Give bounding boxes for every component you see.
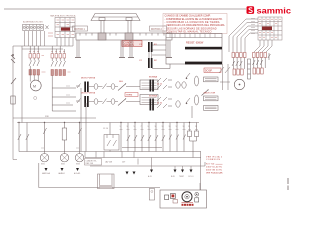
contactor KM1 terminal row — [29, 54, 40, 59]
red control label on table — [122, 41, 142, 48]
row 2R: pump circuit B — [149, 95, 180, 111]
thermal relay F1 row — [29, 70, 40, 76]
connector bars X5 (pair, upper) — [139, 42, 157, 52]
svg-text:KM1: KM1 — [41, 164, 45, 166]
connector grid J2 (control board, under logo) — [258, 17, 282, 40]
resistor row RA1 (right cluster 1) — [232, 53, 246, 58]
svg-text:17: 17 — [176, 126, 178, 128]
KM2 aux red label — [68, 71, 71, 73]
svg-text:1: 1 — [120, 126, 121, 128]
ladder branch B2 — [26, 123, 29, 152]
svg-text:TEMP: TEMP — [179, 176, 185, 178]
svg-text:209: 209 — [122, 162, 125, 164]
relay coil KM1 — [40, 123, 48, 166]
fuse block between clusters — [248, 59, 251, 79]
contacts under RB1 — [253, 58, 266, 69]
wire: distribution bus y49 — [22, 48, 63, 50]
svg-text:sammic: sammic — [257, 5, 292, 15]
selector arrow row1 — [118, 84, 126, 91]
heater element bar 2 — [185, 62, 222, 65]
panel red label line — [182, 202, 194, 204]
wire: heater feeders down right — [219, 64, 230, 90]
panel knob — [182, 192, 192, 202]
wire: stem to panel — [199, 183, 201, 190]
red marks left of J1 — [48, 33, 53, 36]
switch on supply line — [46, 26, 49, 30]
ladder: control line top — [13, 117, 96, 119]
svg-text:230V 50-60 Hz: 230V 50-60 Hz — [206, 167, 222, 169]
svg-text:KM3: KM3 — [76, 164, 80, 166]
label box left of hood — [73, 26, 88, 31]
supply terminal strip X1 — [23, 20, 49, 30]
svg-text:21: 21 — [188, 126, 190, 128]
control panel box — [160, 190, 207, 208]
ladder: second bottom bus — [85, 157, 201, 159]
coil row1 a — [94, 84, 98, 90]
ladder sub-line — [122, 147, 162, 149]
svg-text:7: 7 — [141, 126, 142, 128]
revision tick right margin — [287, 178, 289, 190]
fuse F0 — [11, 96, 15, 104]
svg-text:KM2: KM2 — [61, 164, 65, 166]
wire: J1 stems down — [57, 38, 73, 47]
dosing pump D1 (striped box) — [204, 77, 219, 82]
indicator labels — [42, 172, 194, 178]
svg-text:9: 9 — [148, 126, 149, 128]
svg-text:B-85: B-85 — [171, 176, 175, 178]
svg-text:11: 11 — [155, 126, 157, 128]
resistor row RA2 — [233, 69, 243, 75]
heater element bar 1 — [185, 47, 222, 50]
svg-text:RESIST. 6000W: RESIST. 6000W — [186, 42, 204, 45]
heater label box row1 — [140, 80, 158, 90]
KM1 pin labels — [29, 52, 44, 56]
contactor KM2 contacts — [51, 46, 66, 67]
contacts left of T1 — [186, 73, 190, 104]
red note list bottom right — [206, 163, 223, 175]
machine table top bar with terminal ticks — [76, 33, 172, 40]
wire: left feeder L2 — [21, 46, 23, 123]
wire: L feed corner bottom-left — [13, 123, 17, 160]
wire: heater to dosing — [152, 64, 170, 69]
selector arrow S2 — [202, 90, 209, 96]
svg-text:ALIMENTACION 230V: ALIMENTACION 230V — [23, 20, 43, 23]
contactor KM2 terminal row — [51, 54, 66, 59]
svg-text:LAV 208: LAV 208 — [105, 161, 112, 164]
svg-text:LAVADO: LAVADO — [58, 172, 66, 175]
switch S1 on feeder L1 — [11, 78, 16, 84]
relay coil KM2 — [60, 154, 68, 166]
machine legs — [75, 40, 172, 58]
wire: heater box feeds — [152, 45, 166, 55]
hinge tab mark — [151, 191, 153, 193]
indicator icons row — [45, 168, 193, 175]
wire: row2 links — [89, 101, 140, 103]
svg-text:MARCHA: MARCHA — [42, 172, 51, 175]
aux contact far right — [268, 53, 271, 60]
svg-text:MICRO PUERTA: MICRO PUERTA — [81, 92, 96, 95]
svg-text:NOTA:: NOTA: — [206, 163, 215, 166]
label box right of hood — [150, 26, 167, 31]
ladder: main bus L — [17, 122, 199, 124]
wire: KM2 feeder ladder — [52, 76, 76, 112]
svg-text:B2: B2 — [154, 60, 157, 62]
F1 red label — [42, 71, 46, 73]
junction dots on bus — [18, 122, 190, 123]
svg-text:23: 23 — [195, 126, 197, 128]
resistor row RB2 — [253, 68, 263, 74]
panel red button row — [182, 204, 194, 206]
row 1: micro door switch circuit — [76, 77, 158, 93]
svg-text:A-70: A-70 — [148, 175, 152, 178]
connector bars X6 (pair, lower) — [139, 58, 157, 68]
wire: terminal stems down — [25, 31, 45, 46]
svg-text:MICRO PUERTA: MICRO PUERTA — [81, 77, 96, 80]
transformer T1 secondary winding — [195, 95, 199, 105]
panel switch block B — [171, 194, 178, 204]
svg-text:400V 3N 50 Hz: 400V 3N 50 Hz — [206, 170, 222, 172]
row 1R: pump circuit — [149, 76, 186, 92]
breaker Q1 — [11, 54, 15, 63]
resistor row RB1 (right cluster 2) — [253, 53, 267, 58]
connector grid J1 red pin marks — [57, 20, 75, 35]
heater box R1 — [166, 34, 222, 65]
svg-text:MANDOS: MANDOS — [124, 44, 135, 47]
machine hood outline — [91, 14, 140, 21]
wire: door box drops — [81, 88, 110, 152]
feeder labels — [66, 86, 70, 103]
svg-text:VER PLACA CAR.: VER PLACA CAR. — [206, 171, 223, 174]
machine hood posts — [101, 21, 131, 34]
svg-text:BOMBA: BOMBA — [149, 95, 157, 98]
contacts under RA1 — [232, 58, 245, 70]
door switch box (dashed) — [104, 135, 119, 151]
display window — [98, 174, 115, 189]
svg-text:3: 3 — [127, 126, 128, 128]
svg-text:CUADRO EL.: CUADRO EL. — [86, 159, 98, 162]
KM2 terminal row 2 — [51, 70, 66, 76]
svg-text:MOTOR 2: MOTOR 2 — [151, 28, 163, 31]
ladder: bottom bus N — [19, 151, 201, 153]
ladder right branch row — [121, 123, 199, 158]
contacts row1 left — [76, 84, 81, 89]
connector bars row1 — [84, 82, 86, 93]
coil row1 b — [111, 84, 115, 90]
svg-text:DOSIF.: DOSIF. — [205, 70, 213, 72]
panel button square — [195, 198, 199, 202]
terminal info box in panel — [85, 159, 126, 166]
ladder branch B1 — [18, 123, 21, 152]
ladder branch pin dashes — [120, 129, 199, 131]
J2 pin labels column — [251, 19, 255, 34]
motor M1 — [30, 80, 41, 91]
connector bars row1R — [150, 80, 152, 92]
wire: inter-bus links — [85, 152, 138, 165]
svg-text:REF 208: REF 208 — [86, 163, 93, 165]
contact cluster row1R — [157, 78, 172, 89]
svg-text:SEL: SEL — [119, 81, 124, 83]
wire: row1 links — [89, 86, 140, 88]
ladder RC filter box — [62, 123, 66, 154]
svg-text:13: 13 — [162, 126, 164, 128]
connector grid J1 red cell — [61, 28, 70, 31]
svg-text:CONEXION: CONEXION — [206, 159, 220, 161]
transformer T1 primary winding — [195, 76, 199, 86]
ground mark under M1 — [34, 97, 37, 100]
relay coil KM3 — [75, 123, 83, 166]
dosing pump D3 (striped box) — [204, 106, 219, 111]
dosing pump D2 (striped box) — [204, 96, 219, 101]
wire: F1 to motor M1 — [30, 66, 38, 82]
row 2: micro door switch circuit B — [76, 92, 158, 108]
wire: top horizontal rule — [4, 8, 246, 10]
panel enclosure box — [39, 152, 205, 191]
panel switch block A — [165, 195, 169, 200]
svg-text:398: 398 — [45, 116, 49, 118]
wire: dosing drop — [191, 106, 193, 118]
svg-text:31 32: 31 32 — [157, 103, 163, 105]
wire: icon stems — [152, 158, 192, 170]
wire: distribution bus y46 — [13, 45, 73, 47]
svg-text:13 14: 13 14 — [103, 128, 109, 130]
KM2 pin labels — [51, 51, 65, 53]
svg-text:19: 19 — [183, 126, 185, 128]
wire bundle from board J2 down — [229, 19, 272, 52]
red note right of bus — [206, 155, 223, 161]
connector grid J1 (top-left) — [55, 18, 75, 38]
svg-text:ACLAR.: ACLAR. — [74, 172, 81, 175]
contact row1 mid — [103, 84, 107, 90]
transformer T1 label (red) — [204, 68, 221, 72]
svg-text:SELECTOR: SELECTOR — [204, 93, 216, 95]
svg-text:M: M — [33, 84, 36, 88]
motor M2 (right) — [234, 79, 244, 89]
svg-text:15: 15 — [169, 126, 171, 128]
contactor KM1 contacts — [29, 46, 40, 66]
notes text block (red) — [163, 14, 227, 34]
connector grid J2 red cells — [262, 27, 272, 31]
ladder branch labels — [120, 126, 198, 128]
logo Sammic emblem — [247, 6, 255, 14]
panel indicator circle — [195, 192, 199, 196]
svg-text:MOTOR 1: MOTOR 1 — [74, 28, 86, 31]
control panel hinge tab — [149, 189, 154, 201]
svg-text:TARJETA ELECTRONICA: TARJETA ELECTRONICA — [50, 15, 76, 18]
svg-text:21 22: 21 22 — [157, 84, 163, 86]
svg-text:C2: C2 — [139, 60, 143, 62]
svg-text:CICLO: CICLO — [188, 176, 194, 178]
svg-text:TERM: TERM — [126, 95, 132, 97]
wire: left feeder L1 — [12, 46, 14, 123]
wire: bars link — [149, 52, 152, 58]
svg-text:BOMBA: BOMBA — [149, 76, 157, 79]
svg-text:5: 5 — [134, 126, 135, 128]
coils row1R — [176, 82, 180, 88]
